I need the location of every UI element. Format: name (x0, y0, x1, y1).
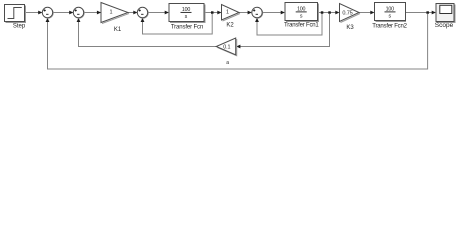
svg-text:K1: K1 (114, 27, 122, 33)
wire: gain K2 to Sum4 (239, 11, 252, 15)
sum junction Sum4 (252, 7, 263, 18)
wire: gain K3 to Transfer Fcn2 (359, 11, 375, 15)
sum junction Sum2 (73, 7, 84, 18)
svg-text:K3: K3 (346, 25, 354, 31)
sum junction Sum1 (42, 7, 53, 18)
svg-text:1: 1 (109, 10, 112, 16)
svg-text:Step: Step (13, 24, 26, 30)
svg-text:Transfer Fcn2: Transfer Fcn2 (372, 24, 407, 30)
source block Step (5, 5, 26, 30)
wire: Sum4 to Transfer Fcn1 (262, 11, 285, 15)
wire: Transfer Fcn2 to Scope, with branch node J1 (406, 11, 436, 15)
svg-text:a: a (226, 60, 229, 66)
svg-text:1: 1 (226, 9, 229, 15)
node J4 (321, 11, 324, 14)
gain K1 (101, 3, 129, 34)
gain G1 (0.1 feedback gain, pointing left) (216, 38, 237, 66)
sink block Scope (435, 4, 455, 30)
gain K3 (340, 4, 361, 32)
transfer function block Transfer Fcn (100/s) (169, 4, 205, 31)
svg-text:Scope: Scope (435, 22, 454, 29)
wire: Sum2 to gain K1 (84, 11, 102, 15)
svg-text:s: s (185, 14, 188, 20)
svg-text:0.75: 0.75 (342, 10, 352, 16)
wire: Sum3 to Transfer Fcn (148, 11, 169, 15)
wire: feedback from J2 into gain G1 input (236, 14, 329, 49)
svg-text:100: 100 (182, 7, 190, 13)
node J1 (426, 11, 429, 14)
node J3 (211, 11, 214, 14)
wire: Transfer Fcn to gain K2, with branch node J3 (205, 11, 222, 15)
wire: feedback loop Sum4 (from J4 down and left into Sum4 bottom) (255, 14, 322, 35)
wire: Step to Sum1 (26, 11, 43, 15)
wire: Transfer Fcn1 to gain K3, with branch nodes J4 and J2 (319, 11, 340, 15)
svg-text:Transfer Fcn: Transfer Fcn (171, 25, 203, 31)
wire: feedback loop Sum3 (from J3 down and left into Sum3 bottom) (141, 14, 213, 34)
wire: gain K1 to Sum3 (128, 11, 138, 15)
svg-text:s: s (300, 14, 303, 20)
wire: Sum1 to Sum2 (53, 11, 74, 15)
svg-text:100: 100 (386, 6, 394, 12)
svg-text:K2: K2 (226, 23, 234, 29)
transfer function block Transfer Fcn2 (100/s) (372, 3, 407, 30)
wire: outer feedback loop Sum1 (from J1 down, left, up into Sum1 bottom) (46, 14, 428, 69)
svg-text:s: s (388, 14, 391, 20)
transfer function block Transfer Fcn1 (100/s) (284, 3, 319, 29)
gain K2 (222, 5, 241, 29)
wire: gain G1 output left and up into Sum2 bottom (77, 18, 216, 47)
svg-text:100: 100 (297, 6, 305, 12)
svg-text:Transfer Fcn1: Transfer Fcn1 (284, 23, 319, 29)
svg-text:0.1: 0.1 (223, 44, 230, 50)
sum junction Sum3 (137, 7, 148, 18)
node J2 (328, 11, 331, 14)
